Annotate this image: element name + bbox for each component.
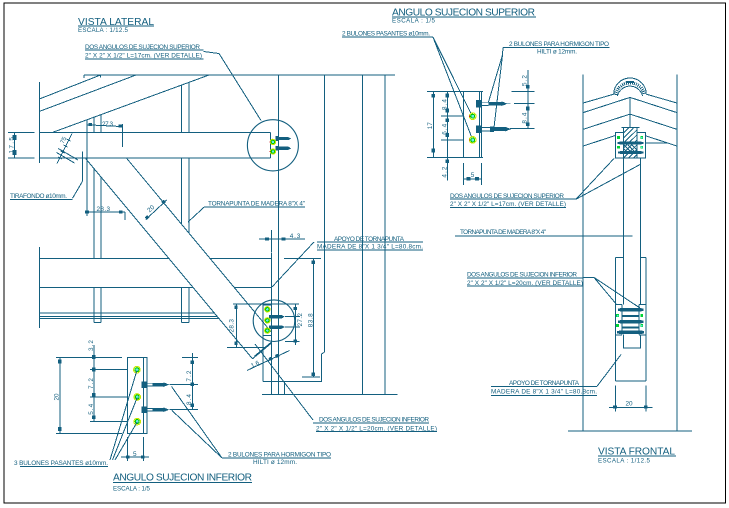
wall stud x385 <box>384 75 386 394</box>
right ext y91.5 <box>512 91 535 93</box>
hole E1 ext line <box>90 369 128 371</box>
dim 83.8 vertical line <box>284 259 321 377</box>
title underline <box>392 16 536 18</box>
dim 20 ext bottom <box>56 433 122 435</box>
front lower thin bar 2 <box>622 327 639 329</box>
dim 17.5 ticks <box>13 135 17 155</box>
svg-text:17: 17 <box>427 122 434 130</box>
brace width dim line (20) <box>146 200 167 220</box>
svg-text:TORNAPUNTA DE MADERA 8"X 4": TORNAPUNTA DE MADERA 8"X 4" <box>460 229 546 236</box>
brace end cut <box>253 343 272 359</box>
angle leg inner line <box>143 357 145 433</box>
inferior bolt F2 <box>142 406 170 413</box>
leader to DOS ANGULOS INFERIOR text <box>255 344 313 420</box>
hole L3 lower joint <box>265 328 270 333</box>
dim 5 ext left <box>463 163 465 185</box>
rail1 bottom edge <box>39 287 193 289</box>
front apoyo support <box>615 258 646 382</box>
wall stud x362 <box>361 75 363 394</box>
leaders DOS ANGULOS INFERIOR (front) <box>583 278 640 309</box>
chevron C1 left <box>583 94 614 103</box>
post left edge <box>270 253 272 395</box>
rafter D3 <box>52 75 209 133</box>
sill line <box>39 318 219 320</box>
detail bolt D1 shaft outline <box>482 102 511 105</box>
svg-text:8.4: 8.4 <box>521 112 528 123</box>
svg-text:APOYO DE TORNAPUNTA: APOYO DE TORNAPUNTA <box>509 380 580 387</box>
APOYO underline1 <box>317 241 423 243</box>
stud A left line below beam <box>93 169 95 259</box>
svg-text:TIRAFONDO ø10mm.: TIRAFONDO ø10mm. <box>10 193 67 200</box>
inferior hole E1 <box>134 366 141 373</box>
svg-text:TORNAPUNTA DE MADERA 8"X 4": TORNAPUNTA DE MADERA 8"X 4" <box>208 201 305 208</box>
right ext y128.3 <box>510 127 535 129</box>
main beam bottom edge <box>39 157 270 159</box>
inferior bolt F1 shaft <box>147 383 172 386</box>
rail1 top edge <box>39 257 168 259</box>
brace upper edge <box>127 159 271 333</box>
tirafondo screw line <box>57 134 72 164</box>
front left wall line <box>582 74 584 431</box>
stud A left line above beam <box>93 117 95 133</box>
rail2 bottom line <box>39 316 217 318</box>
stud B right line below beam <box>188 158 190 233</box>
svg-text:6.4: 6.4 <box>441 123 448 134</box>
detail dim ticks <box>432 85 530 180</box>
lower left plate inner edge <box>621 305 623 335</box>
leader bend <box>502 47 505 55</box>
chevron C4 right <box>645 136 677 146</box>
detail bolt D2 <box>476 126 511 133</box>
dim 20 line <box>59 357 61 433</box>
hole E3 ext line <box>90 421 128 423</box>
underline1 <box>313 422 429 424</box>
dome top cap <box>626 81 634 83</box>
stud B left line lower <box>181 288 183 323</box>
rafter D1 end tick <box>100 75 102 78</box>
stud A right line lower <box>100 288 102 323</box>
svg-text:83.8: 83.8 <box>307 313 314 327</box>
front lower bolt bar 3 <box>617 331 644 335</box>
underline2 <box>491 394 597 396</box>
support top left stub <box>615 257 623 259</box>
svg-text:20: 20 <box>626 401 634 408</box>
svg-text:ESCALA : 1/5: ESCALA : 1/5 <box>392 18 436 25</box>
apoyo left edge (side view) <box>262 307 264 382</box>
right ext y103.5 <box>514 103 535 105</box>
ridge center line <box>629 97 631 127</box>
support top right stub <box>641 257 646 259</box>
TORNAPUNTA underline <box>204 206 305 208</box>
dim 5 ext right <box>480 163 482 185</box>
brace end cut inner line <box>255 342 272 356</box>
leader bend <box>564 198 576 200</box>
dim 28.3 ext left <box>86 135 88 216</box>
angle leg line a <box>58 149 78 161</box>
left wall line upper segment <box>38 82 40 163</box>
leaders 3 BULONES to holes <box>110 371 137 461</box>
svg-text:7.2: 7.2 <box>88 378 95 389</box>
svg-text:5: 5 <box>471 172 475 179</box>
wall stud jog <box>322 352 325 381</box>
dim 1.6 line <box>247 351 290 371</box>
front lower bolt bar 2 <box>618 320 643 323</box>
svg-text:ESCALA : 1/12.5: ESCALA : 1/12.5 <box>598 458 651 465</box>
stud A right line below beam <box>100 177 102 258</box>
svg-text:28.3: 28.3 <box>229 319 236 333</box>
front upper dots <box>617 136 643 148</box>
underline <box>342 36 433 38</box>
stud A right line above beam <box>100 115 102 133</box>
front lower dots cyan centers <box>617 315 643 327</box>
lower right plate inner edge <box>638 305 640 335</box>
right dim ext bolt2 <box>172 409 198 411</box>
main beam top edge <box>39 132 270 134</box>
stud B left line above beam <box>181 85 183 133</box>
right plate <box>637 133 645 158</box>
left wall line lower segment <box>38 247 40 328</box>
dim 20 front ticks <box>613 406 647 409</box>
dim 27.2 bottom ext <box>285 340 300 342</box>
dim 28.3 ticks <box>85 210 122 213</box>
bolt1 upper joint (side) <box>276 136 292 141</box>
dim 4.3 line <box>259 230 305 253</box>
stud A foot <box>94 322 101 324</box>
bolt1 lower joint (side) <box>269 315 285 319</box>
svg-text:8.4: 8.4 <box>441 99 448 110</box>
dim 20 front ext right <box>645 386 647 412</box>
TIRAFONDO leader diagonal <box>73 182 83 199</box>
svg-text:20: 20 <box>54 393 61 401</box>
dim 83.8 ticks <box>312 261 315 376</box>
dim 5 ext right <box>143 437 145 461</box>
svg-text:2 BULONES PARA HORMIGON TIPO: 2 BULONES PARA HORMIGON TIPO <box>228 451 331 458</box>
hole L2 lower joint <box>265 318 270 323</box>
bolt2 axis line <box>285 326 300 328</box>
underline1 <box>467 277 583 279</box>
support right edge <box>645 258 647 382</box>
title underline <box>113 481 252 483</box>
stud B right line lower <box>188 288 190 323</box>
front upper block bottom edge <box>615 157 645 159</box>
screw thread ticks <box>58 139 71 159</box>
front upper bolt bar 1 end line <box>645 142 667 144</box>
dome band hatch <box>614 81 646 95</box>
svg-text:5.2: 5.2 <box>521 75 528 86</box>
hole H2 upper joint <box>269 149 275 154</box>
dim 4.2 line <box>447 157 449 180</box>
bottom ext line <box>227 347 266 349</box>
rafter D1 <box>39 75 100 99</box>
angle leg inner line <box>479 92 481 158</box>
tick at top line start <box>83 75 85 78</box>
dim 28.3 ext right <box>124 212 126 220</box>
dome inner arc <box>617 86 642 96</box>
right dim line <box>192 353 194 410</box>
rail1 bottom edge right part <box>234 287 271 289</box>
front upper bolt bar 1 <box>618 141 644 144</box>
TIRAFONDO leader vertical <box>82 152 84 182</box>
dim 83.8 top ext <box>284 258 321 260</box>
svg-text:ESCALA : 1/12.5: ESCALA : 1/12.5 <box>78 27 129 34</box>
detail bolt D1 <box>476 100 508 107</box>
front post left edge <box>623 158 625 305</box>
dome outer arc <box>614 78 647 94</box>
front upper dots cyan centers <box>641 137 643 148</box>
leader to upper joint circle <box>204 52 262 121</box>
APOYO leader <box>272 242 314 287</box>
svg-text:28.3: 28.3 <box>97 206 111 213</box>
svg-text:5: 5 <box>133 451 137 458</box>
leader to bolt D1 <box>489 55 503 102</box>
svg-text:5.4: 5.4 <box>88 403 95 414</box>
support left edge <box>614 258 616 382</box>
support bottom edge <box>615 380 646 382</box>
top lip <box>622 127 640 129</box>
lower plates bottom step <box>615 334 646 336</box>
bottom ext line <box>427 156 483 158</box>
inner dim line <box>93 345 95 422</box>
underline <box>20 465 108 467</box>
shared top ext line <box>233 303 299 305</box>
dim 28.3 vertical ticks <box>234 306 237 346</box>
rail2 top line <box>39 312 214 314</box>
bolt2 lower joint (side) <box>269 325 285 329</box>
svg-text:3.2: 3.2 <box>88 340 95 351</box>
dim 5 line <box>121 456 149 458</box>
svg-text:ESCALA : 1/5: ESCALA : 1/5 <box>113 485 151 492</box>
detail bolt D2 shaft outline <box>482 128 491 131</box>
svg-text:3 BULONES PASANTES ø10mm.: 3 BULONES PASANTES ø10mm. <box>14 460 108 467</box>
detail plate inferior <box>128 357 147 433</box>
hole D1 ext line <box>441 115 464 117</box>
svg-text:2 BULONES PASANTES ø10mm.: 2 BULONES PASANTES ø10mm. <box>342 31 430 38</box>
right dim ext top <box>182 356 198 358</box>
dim 20 front line <box>609 406 653 408</box>
beam end plate <box>270 133 272 159</box>
stud B right line above beam <box>188 82 190 132</box>
TIRAFONDO underline <box>10 199 73 201</box>
front lower bolt bar 1 <box>618 308 643 311</box>
svg-text:4.2: 4.2 <box>442 166 449 177</box>
inferior hole E3 <box>134 418 141 425</box>
dim 17.5 line <box>14 133 16 159</box>
right dim ext bolt1 <box>172 384 198 386</box>
leader to front block left plate <box>576 159 614 200</box>
upper joint detail circle <box>247 120 298 171</box>
dim 27.3 ext right <box>122 124 124 147</box>
dim 20 ext top <box>56 356 122 358</box>
title underline <box>598 455 676 457</box>
leader to hole D1 <box>433 37 472 114</box>
brace width dim ticks <box>145 200 166 220</box>
dim 27.3 ticks <box>88 123 122 127</box>
hatch 45deg <box>624 128 638 158</box>
detail hole D1 <box>469 113 476 120</box>
dim 27.2 vertical line <box>285 304 300 345</box>
underline2 <box>467 285 583 287</box>
apoyo bottom line <box>263 380 322 382</box>
front right wall line <box>676 74 678 431</box>
underline1 <box>450 198 564 200</box>
svg-text:7.2: 7.2 <box>186 370 193 381</box>
underline2 <box>450 206 566 208</box>
svg-text:HILTI ø 12mm.: HILTI ø 12mm. <box>537 48 577 55</box>
dim 5 ext left <box>127 437 129 461</box>
stud A left line lower <box>93 288 95 323</box>
inferior dim ticks <box>58 355 194 458</box>
hole E2 ext line <box>90 396 128 398</box>
stud B left line below beam <box>181 158 183 224</box>
bolt2 upper joint (side) <box>276 146 292 151</box>
hole H1 upper joint <box>269 139 275 144</box>
svg-text:MADERA DE 8"X 1 3/4" L=80.8cm.: MADERA DE 8"X 1 3/4" L=80.8cm. <box>491 389 597 396</box>
leader diagonal <box>597 355 621 387</box>
svg-text:8.4: 8.4 <box>186 394 193 405</box>
stud B foot <box>182 322 189 324</box>
chevron C1 right <box>646 94 677 103</box>
detail plate <box>427 70 535 185</box>
dim 17 line <box>433 92 435 158</box>
APOYO underline2 <box>317 249 423 251</box>
leader to bolt F1 tip <box>172 387 223 459</box>
dim 4.3 ext left <box>270 230 272 253</box>
front lower dots <box>616 314 643 327</box>
dim 17.5 ext bottom <box>8 157 35 159</box>
chevron C3 <box>583 114 677 129</box>
TORNAPUNTA leader <box>188 207 204 222</box>
svg-text:DOS ANGULOS DE SUJECION INFERI: DOS ANGULOS DE SUJECION INFERIOR <box>319 417 429 424</box>
underline2 <box>316 431 437 433</box>
underline <box>222 457 331 459</box>
leader to bolt F2 tip <box>172 411 222 459</box>
leader to bolt D2 <box>494 55 503 128</box>
top plate line <box>84 74 395 76</box>
lower joint detail circle <box>253 300 295 342</box>
dim 27.3 ext left <box>86 120 88 135</box>
label underline2 <box>85 58 204 60</box>
dim 17.5 ext top <box>8 132 35 134</box>
svg-text:HILTI ø 12mm.: HILTI ø 12mm. <box>253 459 297 466</box>
left plate <box>615 133 623 158</box>
right dims line <box>527 70 529 128</box>
label underline1 <box>85 49 204 51</box>
dim 20 front ext left <box>609 386 653 412</box>
title underline <box>78 25 154 27</box>
wall line at beam end <box>278 75 280 395</box>
lower bracket plate <box>263 305 271 336</box>
underline + leader horizontal <box>503 46 610 48</box>
leader to hole D2 <box>433 37 472 138</box>
rafter D2 <box>39 75 136 111</box>
ground line <box>262 394 398 396</box>
inferior bolt F1 <box>142 381 170 388</box>
hole D2 ext line <box>441 139 464 141</box>
brace lower edge <box>86 159 253 359</box>
central hatched rect <box>624 128 638 158</box>
dim 27.2 ticks <box>294 307 297 343</box>
base pedestal vertical <box>284 381 286 394</box>
top ext line <box>427 91 483 93</box>
dim 1.6 ticks <box>268 354 279 361</box>
dim 4.3 ticks <box>265 237 285 240</box>
front lower thin bar 1 <box>622 315 639 317</box>
chevron C2 <box>583 97 677 112</box>
hole L1 lower joint <box>265 307 270 312</box>
svg-text:4.3: 4.3 <box>290 233 301 240</box>
dim 5 line <box>464 178 482 180</box>
svg-text:27.3: 27.3 <box>102 121 113 128</box>
chevron C4 left <box>583 136 615 147</box>
inferior bolt F2 shaft <box>147 408 172 411</box>
dim 28.3 vertical (lower joint) line <box>227 304 299 348</box>
inferior hole E2 <box>134 394 141 401</box>
angle leg line b <box>57 153 75 164</box>
cross hatch middle band <box>624 145 637 153</box>
dim 8.4/6.4 line <box>447 92 449 158</box>
dim 28.3 line <box>87 135 125 220</box>
post end below block <box>624 335 641 349</box>
dim 83.8 bottom ext <box>302 376 320 378</box>
front upper block <box>615 128 645 158</box>
dim 27.3 line <box>87 120 123 147</box>
svg-text:27.2: 27.2 <box>297 313 304 327</box>
lower plates top step <box>615 304 646 306</box>
detail hole D2 <box>469 137 476 144</box>
front ground line <box>568 430 692 432</box>
front post right edge <box>640 158 642 305</box>
leader to front block right plate <box>576 164 641 199</box>
underline1 + leader <box>491 385 597 387</box>
bolt1 axis line <box>285 316 300 318</box>
TORNAPUNTA label leader (front) <box>455 235 633 237</box>
rail1 top edge right part <box>210 257 271 259</box>
wall stud line x325 <box>324 75 326 352</box>
front upper bolt bar 2 <box>618 151 643 154</box>
